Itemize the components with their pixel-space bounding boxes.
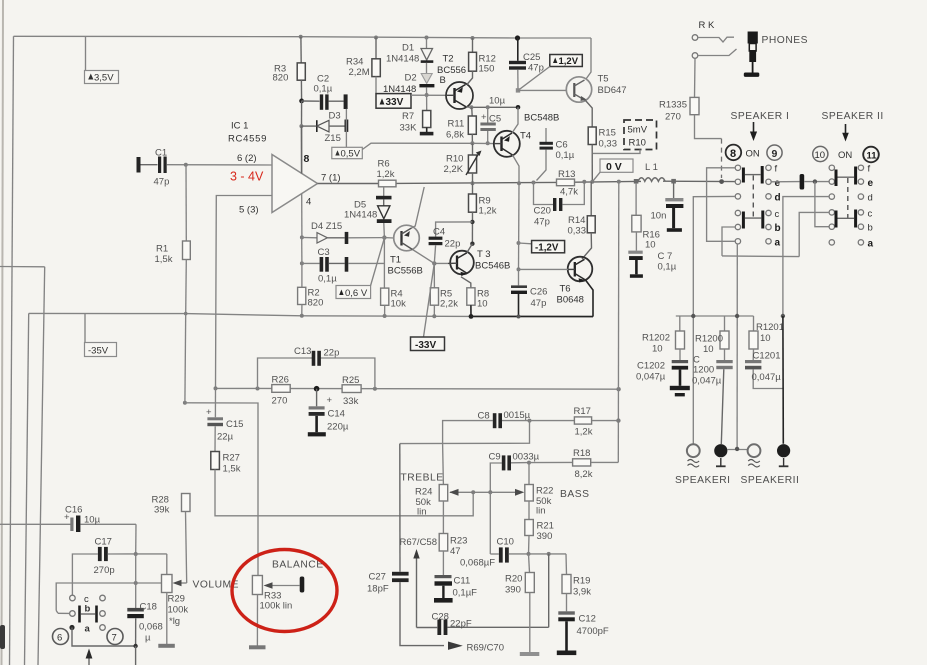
svg-text:8: 8 (730, 148, 736, 160)
svg-text:T 3: T 3 (477, 249, 491, 260)
svg-text:0,1µF: 0,1µF (453, 588, 478, 599)
capacitor C8 (443, 421, 493, 444)
svg-text:R27: R27 (223, 453, 240, 464)
resistor R23 (439, 534, 448, 552)
svg-text:10µ: 10µ (489, 96, 506, 107)
svg-text:BASS: BASS (560, 489, 589, 500)
switch I dashed link (752, 176, 754, 218)
wire D2 to T2 base (426, 87, 428, 95)
svg-text:D2: D2 (405, 73, 417, 84)
switch II bars pair 1 (835, 170, 838, 187)
resistor R18 (529, 461, 573, 463)
wire terminal link (727, 449, 747, 451)
node R9/C4 (470, 220, 474, 224)
svg-text:R24: R24 (415, 487, 432, 498)
capacitor C4 22p (436, 222, 473, 237)
diode D1 1N4148 (425, 36, 429, 40)
node 10n (671, 179, 676, 184)
svg-text:R1201: R1201 (756, 322, 784, 333)
svg-text:C20: C20 (534, 206, 551, 217)
switch II dashed link (847, 178, 849, 218)
svg-text:-35V: -35V (88, 346, 109, 357)
phones jack (748, 32, 758, 44)
svg-text:820: 820 (273, 73, 289, 84)
svg-text:a: a (85, 624, 91, 635)
svg-text:f: f (775, 164, 778, 175)
svg-text:7: 7 (112, 633, 117, 644)
svg-text:3,9k: 3,9k (573, 587, 591, 598)
svg-text:SPEAKERII: SPEAKERII (741, 475, 800, 486)
svg-text:L 1: L 1 (645, 162, 658, 173)
svg-text:C25: C25 (523, 52, 540, 63)
svg-text:220µ: 220µ (327, 422, 349, 433)
svg-text:BC556B: BC556B (388, 266, 423, 277)
capacitor C28 (417, 627, 438, 629)
svg-text:C5: C5 (489, 114, 501, 125)
svg-text:22µ: 22µ (217, 432, 234, 443)
circled 6 (53, 629, 69, 645)
capacitor C11 (435, 575, 452, 578)
arrow R67/C58 up (416, 556, 418, 628)
svg-text:SPEAKERI: SPEAKERI (675, 475, 731, 486)
svg-text:SPEAKER I: SPEAKER I (731, 111, 790, 122)
svg-text:b: b (85, 604, 91, 615)
switch II left contacts (829, 165, 834, 245)
svg-text:270: 270 (665, 112, 681, 123)
svg-text:10: 10 (760, 333, 771, 344)
capacitor C3 (300, 261, 304, 265)
switch I bars pair 1 (742, 168, 745, 183)
svg-text:0,047µ: 0,047µ (752, 372, 782, 383)
svg-text:47p: 47p (528, 63, 544, 74)
transistor T3 BC546B (450, 251, 474, 275)
svg-text:390: 390 (537, 531, 553, 542)
resistor R1202 (679, 316, 681, 331)
transistor T2 BC556 (446, 82, 473, 109)
svg-text:6: 6 (57, 633, 62, 644)
svg-text:+: + (481, 112, 487, 123)
switch bars 6/7 (78, 606, 81, 623)
svg-text:a: a (775, 238, 781, 249)
svg-text:D3: D3 (329, 111, 341, 122)
node e line (719, 179, 724, 184)
node C14 (314, 386, 320, 392)
wire T4 collector up (512, 107, 518, 133)
svg-text:BALANCE: BALANCE (272, 560, 324, 571)
svg-text:11: 11 (867, 151, 878, 162)
svg-text:R69/C70: R69/C70 (467, 643, 505, 654)
svg-text:R21: R21 (537, 521, 554, 532)
svg-text:0,1µ: 0,1µ (658, 262, 677, 273)
svg-text:C1202: C1202 (637, 361, 665, 372)
capacitor C1200 (716, 360, 732, 363)
wire rail to T5 collector (586, 38, 591, 79)
svg-text:8: 8 (304, 153, 310, 165)
svg-text:T4: T4 (520, 131, 531, 142)
wire d line from speaker return (693, 196, 735, 444)
resistor R1201 (753, 316, 755, 331)
diode D5 1N4148 (383, 187, 385, 196)
svg-text:T6: T6 (560, 284, 571, 295)
svg-text:6 (2): 6 (2) (237, 153, 257, 164)
svg-text:C8: C8 (478, 411, 490, 422)
node R3/C2 (299, 99, 304, 104)
node R1 rail (184, 312, 188, 316)
svg-text:0033µ: 0033µ (513, 452, 540, 463)
svg-text:PHONES: PHONES (762, 35, 809, 46)
circled 8 (726, 145, 742, 161)
svg-text:0,6 V: 0,6 V (345, 288, 368, 299)
arrow R69/C70 (448, 642, 463, 650)
svg-text:8,2k: 8,2k (575, 469, 593, 480)
wire +0.5V to R10/R11 node (362, 143, 472, 149)
wire II d line (783, 197, 829, 316)
terminal speakerI ground (714, 444, 727, 457)
wire C16 node down (135, 524, 137, 554)
svg-text:39k: 39k (154, 505, 170, 516)
svg-text:C 7: C 7 (658, 251, 673, 262)
wire: feedback node line y388 (216, 387, 619, 390)
capacitor C13 bracket (258, 358, 314, 389)
svg-text:1N4148: 1N4148 (386, 54, 419, 65)
svg-text:µ: µ (145, 633, 151, 644)
resistor R25 (342, 385, 361, 393)
svg-text:R20: R20 (505, 574, 522, 585)
svg-text:R K: R K (699, 20, 716, 31)
svg-text:f: f (868, 164, 871, 175)
wire: left vertical V3 (38, 267, 45, 665)
svg-text:C26: C26 (530, 287, 547, 298)
capacitor C10 (489, 492, 491, 554)
wire: left vertical V1 (10, 36, 14, 665)
capacitor C17 (72, 554, 97, 596)
resistor R12 (471, 36, 475, 40)
wire a-contact down to y646 (72, 628, 136, 647)
wire cross link y256 (722, 255, 799, 258)
power label -33V box (411, 337, 445, 351)
transistor T4 BC548B (494, 131, 520, 157)
svg-text:C10: C10 (497, 537, 514, 548)
power label +33V box (376, 94, 411, 109)
resistor R28 (182, 494, 191, 512)
svg-text:+: + (206, 407, 212, 418)
svg-text:IC 1: IC 1 (231, 121, 248, 132)
svg-text:18pF: 18pF (367, 584, 389, 595)
switch contacts row a (69, 625, 74, 630)
svg-text:C1201: C1201 (753, 351, 781, 362)
wire: horizontal into V3 (0, 266, 45, 268)
svg-text:10k: 10k (391, 299, 407, 310)
wire C2/D3 to +0.5V (345, 109, 347, 148)
capacitor C27 (399, 444, 401, 572)
svg-text:0,068: 0,068 (139, 622, 163, 633)
svg-text:BC546B: BC546B (475, 261, 510, 272)
resistor R9 (472, 183, 474, 194)
circled 9 (767, 145, 782, 160)
svg-text:1,2k: 1,2k (575, 427, 593, 438)
svg-text:100k lin: 100k lin (260, 601, 293, 612)
node C1/R1 (184, 163, 188, 167)
svg-text:1,2k: 1,2k (479, 206, 497, 217)
box 5mV R10 dashed (624, 120, 657, 150)
wire T6 emitter to rail (586, 280, 594, 317)
resistor R16 (635, 183, 637, 215)
switch II bars pair 2 (835, 211, 838, 228)
resistor R26 (272, 385, 290, 393)
svg-text:22pF: 22pF (450, 619, 472, 630)
annotation red ellipse (232, 550, 337, 632)
ground R7 (420, 132, 434, 136)
scan dark blob left edge (0, 625, 5, 649)
svg-text:R19: R19 (573, 576, 590, 587)
svg-text:-1,2V: -1,2V (535, 243, 559, 254)
wire output node down (C26 branch) (518, 183, 521, 269)
svg-text:7 (1): 7 (1) (321, 173, 341, 184)
svg-text:10µ: 10µ (84, 515, 101, 526)
wire II c bracket (799, 212, 829, 256)
svg-text:T5: T5 (598, 74, 609, 85)
svg-text:T1: T1 (390, 255, 401, 266)
power label +0.6V box (336, 286, 371, 299)
svg-text:R22: R22 (536, 486, 553, 497)
wire T2 emitter node (466, 106, 518, 109)
svg-text:100k: 100k (168, 605, 189, 616)
capacitor C6 (545, 128, 547, 142)
svg-text:33k: 33k (343, 396, 359, 407)
resistor R1200 (724, 316, 726, 331)
svg-text:R15: R15 (599, 128, 616, 139)
svg-text:D4 Z15: D4 Z15 (311, 221, 342, 232)
svg-text:0,068µF: 0,068µF (460, 558, 495, 569)
svg-text:e: e (868, 178, 874, 189)
potentiometer R10 (471, 181, 475, 185)
resistor R17 (530, 420, 575, 422)
op-amp U1 RC4559 (272, 155, 318, 213)
wire speakerII dark line (782, 316, 784, 444)
wire: op-amp pin8 up (301, 126, 303, 173)
wire II e to b (815, 182, 829, 227)
svg-text:10: 10 (477, 299, 488, 310)
resistor R6 (379, 180, 397, 187)
wire: -35V bottom rail (29, 313, 593, 316)
diode D4 Z15 (300, 235, 304, 239)
capacitor C9 (490, 463, 502, 492)
capacitor C18 (127, 608, 144, 612)
resistor R21 (528, 501, 530, 520)
svg-text:C18: C18 (140, 602, 157, 613)
resistor R11 (471, 107, 474, 116)
diagonal to -33V (424, 263, 435, 337)
svg-text:TREBLE: TREBLE (401, 473, 444, 484)
wire T6 base (519, 268, 569, 270)
svg-text:C28: C28 (432, 612, 449, 623)
svg-text:C13: C13 (294, 346, 311, 357)
svg-text:B: B (440, 75, 446, 86)
wire: node to volume branch y403 (183, 401, 187, 405)
svg-text:0,5V: 0,5V (341, 149, 361, 160)
svg-text:d: d (868, 193, 873, 204)
svg-text:1N4148: 1N4148 (344, 210, 377, 221)
svg-text:BD647: BD647 (598, 85, 627, 96)
dashed link phones to switch (721, 139, 723, 178)
svg-text:RC4559: RC4559 (228, 134, 267, 145)
capacitor C25 (515, 35, 520, 40)
capacitor 10n (673, 183, 675, 198)
svg-text:C12: C12 (579, 614, 596, 625)
switch contacts row b (70, 611, 76, 617)
transistor T6 B0648 (568, 257, 593, 282)
wire: main output line (318, 183, 379, 185)
svg-text:d: d (775, 193, 781, 204)
svg-text:3 - 4V: 3 - 4V (230, 170, 264, 184)
svg-text:c: c (775, 209, 780, 220)
svg-text:R6: R6 (378, 159, 390, 170)
svg-text:ON: ON (746, 149, 760, 160)
svg-text:e: e (775, 178, 781, 189)
wire to R29 top (166, 554, 168, 575)
svg-text:R17: R17 (574, 406, 591, 417)
transistor T5 BD647 (566, 77, 591, 102)
svg-text:0015µ: 0015µ (504, 410, 531, 421)
svg-text:10: 10 (645, 240, 656, 251)
scan page edge (2, 0, 4, 665)
switch II right contacts (858, 165, 863, 245)
capacitor C12 (558, 611, 575, 614)
svg-text:22p: 22p (324, 348, 340, 359)
wire: left vertical V2 (-35V rail) (25, 313, 29, 665)
svg-text:lin: lin (417, 507, 427, 518)
resistor R14 (590, 182, 592, 216)
wire tone top line y443 (400, 421, 530, 444)
svg-text:4: 4 (306, 197, 311, 208)
svg-text:R34: R34 (346, 57, 363, 68)
svg-text:b: b (868, 223, 873, 234)
resistor R34 (374, 36, 378, 40)
svg-text:47p: 47p (154, 177, 170, 188)
resistor R15 (586, 101, 593, 128)
svg-text:1N4148: 1N4148 (383, 84, 416, 95)
svg-text:0,1µ: 0,1µ (314, 84, 333, 95)
switch II coupling capacitor (771, 181, 799, 183)
resistor R8 (467, 288, 475, 305)
svg-text:2,2K: 2,2K (444, 164, 464, 175)
svg-text:6,8k: 6,8k (446, 130, 464, 141)
node T5 base (516, 88, 520, 92)
svg-text:4700pF: 4700pF (577, 626, 609, 637)
resistor R20 (529, 554, 530, 573)
svg-text:10n: 10n (651, 211, 667, 222)
wire rail y316 speakers (676, 315, 754, 317)
wire C28 right up (548, 554, 550, 627)
switch I bracket (707, 168, 736, 242)
svg-text:R11: R11 (448, 119, 465, 130)
svg-text:R1: R1 (156, 244, 168, 255)
transistor T1 BC556B (394, 225, 420, 251)
svg-text:SPEAKER II: SPEAKER II (822, 111, 884, 122)
svg-text:ON: ON (838, 150, 852, 161)
svg-text:R26: R26 (272, 375, 289, 386)
capacitor C5 (487, 107, 489, 122)
capacitor C14 220u (316, 389, 318, 407)
svg-text:10: 10 (703, 344, 714, 355)
capacitor C2 (302, 100, 320, 102)
svg-text:1,5k: 1,5k (223, 464, 241, 475)
wire: inverting input feedback (216, 196, 273, 389)
svg-text:0,1µ: 0,1µ (318, 274, 337, 285)
svg-text:*lg: *lg (169, 616, 180, 627)
svg-text:R10: R10 (629, 138, 646, 149)
potentiometer R33 BALANCE (252, 576, 262, 595)
wiper line R24-R22 (450, 491, 517, 493)
node R3/D3 (299, 124, 303, 128)
svg-text:R1200: R1200 (695, 334, 723, 345)
svg-text:C17: C17 (95, 537, 112, 548)
svg-text:22p: 22p (445, 239, 461, 250)
wire: +35V top rail (14, 36, 592, 38)
capacitor C15 22u (214, 388, 216, 417)
svg-text:0,33: 0,33 (599, 139, 618, 150)
svg-text:R29: R29 (168, 594, 185, 605)
resistor R1335 (694, 59, 697, 98)
svg-text:R1335: R1335 (659, 100, 687, 111)
svg-text:R7: R7 (402, 111, 414, 122)
terminal speakerII ground (777, 444, 790, 457)
svg-text:33V: 33V (386, 97, 404, 108)
resistor R4 (381, 288, 389, 305)
svg-text:-33V: -33V (415, 340, 436, 351)
switch I left contacts (735, 165, 740, 244)
svg-text:R14: R14 (568, 215, 585, 226)
potentiometer R22 BASS (528, 463, 530, 485)
diode D2 1N4148 (426, 63, 428, 74)
wire: op-amp pin4 down (301, 194, 303, 238)
arrow up bottom (88, 654, 90, 665)
svg-text:1,2k: 1,2k (377, 169, 395, 180)
svg-text:820: 820 (308, 298, 324, 309)
capacitor C16 (0, 523, 71, 525)
svg-text:R18: R18 (573, 448, 590, 459)
svg-text:10: 10 (652, 344, 663, 355)
svg-text:1,2V: 1,2V (559, 56, 579, 67)
power label +3.5V box (85, 37, 87, 71)
svg-text:T2: T2 (443, 54, 454, 65)
wire T3 collector (467, 244, 473, 253)
svg-text:C9: C9 (489, 452, 501, 463)
svg-text:390: 390 (505, 585, 521, 596)
wire: output feedback vertical x618 (617, 182, 620, 463)
svg-text:0 V: 0 V (606, 161, 622, 173)
svg-text:3,5V: 3,5V (94, 73, 114, 84)
circled 7 (107, 629, 123, 645)
power label 0V box (600, 159, 633, 172)
wire y583 row (56, 583, 161, 611)
svg-text:1200: 1200 (693, 365, 714, 376)
power label +1.2V box (550, 55, 583, 67)
svg-text:33K: 33K (400, 123, 418, 134)
phones contact 2 (692, 53, 698, 59)
svg-text:R67/C58: R67/C58 (400, 537, 438, 548)
svg-text:C3: C3 (318, 247, 330, 258)
wire T4 emitter down (513, 155, 520, 183)
svg-text:BC548B: BC548B (524, 113, 559, 124)
resistor R13 (532, 181, 536, 185)
svg-text:D1: D1 (402, 43, 414, 54)
phones contact 1 (692, 35, 698, 41)
svg-text:lin: lin (536, 506, 546, 517)
svg-text:2,2k: 2,2k (440, 299, 458, 310)
wire a-line down (736, 244, 738, 448)
resistor R7 (426, 95, 428, 111)
